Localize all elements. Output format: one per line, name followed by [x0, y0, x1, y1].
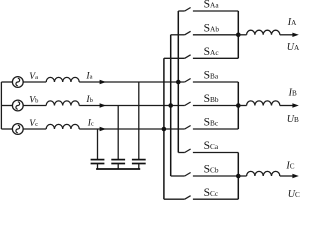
wire output C to inductor: [238, 175, 246, 177]
svg-text:Va: Va: [29, 72, 38, 82]
svg-text:SBc: SBc: [204, 116, 219, 129]
svg-text:SBb: SBb: [204, 92, 219, 105]
inductor Lb: [46, 101, 79, 106]
node phase c junction: [162, 127, 167, 132]
wire switch SAc to output bus: [193, 57, 238, 59]
wire switch SBb to output bus: [193, 105, 238, 107]
wire bus phase c (feeds SAc,SBc,SCc): [163, 58, 165, 199]
wire bus b stub to switch SAb: [171, 34, 185, 36]
wire capacitor neutral bus: [96, 168, 140, 170]
current arrow IB: [292, 103, 298, 107]
wire bus c stub to switch SCc: [164, 198, 185, 200]
wire switch SBc to output bus: [193, 128, 238, 130]
node phase a junction: [176, 80, 181, 85]
switch SBc blade: [185, 126, 191, 130]
AC source Vc: [12, 124, 23, 135]
wire output bus A: [237, 11, 239, 58]
svg-text:SAc: SAc: [204, 45, 220, 58]
wire switch SAa to output bus: [193, 10, 238, 12]
switch SCc blade: [185, 196, 191, 200]
wire switch SCc to output bus: [193, 198, 238, 200]
current arrow IA: [292, 33, 298, 37]
svg-text:IC: IC: [285, 161, 294, 172]
node output B junction: [236, 103, 241, 108]
wire output A arrow line: [280, 34, 294, 36]
capacitor Cc (phase c): [91, 160, 105, 164]
inductor La: [46, 77, 79, 82]
switch SBb blade: [185, 102, 191, 106]
svg-text:SCb: SCb: [204, 163, 219, 176]
switch SAa blade: [185, 8, 191, 12]
wire inductor Lc to matrix bus c: [79, 128, 185, 130]
wire source Vb left stub: [1, 105, 12, 107]
svg-text:SAb: SAb: [204, 21, 220, 34]
inductor Lc: [46, 124, 79, 129]
inductor output LC: [247, 171, 280, 176]
wire output C arrow line: [280, 175, 294, 177]
capacitor Cb (phase b): [111, 160, 125, 164]
wire capacitor Cb (phase b) to neutral bus: [117, 164, 119, 170]
wire source Va to inductor: [23, 81, 46, 83]
current arrow Ib: [100, 103, 106, 107]
svg-text:Ib: Ib: [85, 95, 93, 105]
switch SCb blade: [185, 173, 191, 177]
svg-text:IB: IB: [288, 87, 297, 98]
switch SCa blade: [185, 149, 191, 153]
node output A junction: [236, 33, 241, 38]
wire output bus C: [237, 153, 239, 200]
wire switch SCb to output bus: [193, 175, 238, 177]
wire switch SAb to output bus: [193, 34, 238, 36]
switch SBa blade: [185, 79, 191, 83]
wire bus c stub to switch SAc: [164, 57, 185, 59]
capacitor Ca (phase a): [132, 160, 146, 164]
wire left vertical bus joining sources: [0, 82, 2, 129]
svg-text:Vc: Vc: [29, 119, 38, 129]
svg-text:SCa: SCa: [204, 139, 219, 152]
svg-text:SBa: SBa: [204, 69, 219, 82]
wire output B to inductor: [238, 105, 246, 107]
wire source Va left stub: [1, 81, 12, 83]
wire bus phase a (feeds SAa,SBa,SCa): [177, 11, 179, 153]
svg-text:IA: IA: [287, 17, 297, 28]
wire source Vc to inductor: [23, 128, 46, 130]
svg-text:SAa: SAa: [204, 0, 220, 11]
wire output bus B: [237, 82, 239, 129]
current arrow Ic: [100, 127, 106, 131]
switch SAc blade: [185, 55, 191, 59]
switch SAb blade: [185, 31, 191, 35]
wire output A to inductor: [238, 34, 246, 36]
wire source Vb to inductor: [23, 105, 46, 107]
svg-text:UC: UC: [288, 189, 300, 200]
wire capacitor Ca (phase a) to neutral bus: [138, 164, 140, 170]
inductor output LB: [247, 101, 280, 106]
wire source Vc left stub: [1, 128, 12, 130]
inductor output LA: [247, 30, 280, 35]
svg-text:Ia: Ia: [85, 72, 92, 82]
wire phase drop to capacitor Cb (phase b): [117, 106, 119, 160]
svg-text:UB: UB: [287, 114, 299, 125]
current arrow IC: [292, 174, 298, 178]
AC source Vb: [12, 100, 23, 111]
wire output B arrow line: [280, 105, 294, 107]
node output C junction: [236, 174, 241, 179]
wire inductor La to matrix bus a: [79, 81, 185, 83]
current arrow Ia: [100, 80, 106, 84]
wire bus phase b (feeds SAb,SBb,SCb): [170, 35, 172, 176]
svg-text:UA: UA: [287, 42, 300, 53]
wire phase drop to capacitor Cc (phase c): [97, 129, 99, 160]
svg-text:Vb: Vb: [29, 95, 39, 105]
wire bus b stub to switch SCb: [171, 175, 185, 177]
wire phase drop to capacitor Ca (phase a): [138, 82, 140, 160]
wire bus a stub to switch SAa: [178, 10, 184, 12]
svg-text:Ic: Ic: [87, 119, 94, 129]
wire capacitor Cc (phase c) to neutral bus: [97, 164, 99, 170]
AC source Va: [12, 77, 23, 88]
wire switch SCa to output bus: [193, 152, 238, 154]
wire inductor Lb to matrix bus b: [79, 105, 185, 107]
wire bus a stub to switch SCa: [178, 152, 184, 154]
svg-text:SCc: SCc: [204, 186, 219, 199]
node phase b junction: [168, 103, 173, 108]
wire switch SBa to output bus: [193, 81, 238, 83]
